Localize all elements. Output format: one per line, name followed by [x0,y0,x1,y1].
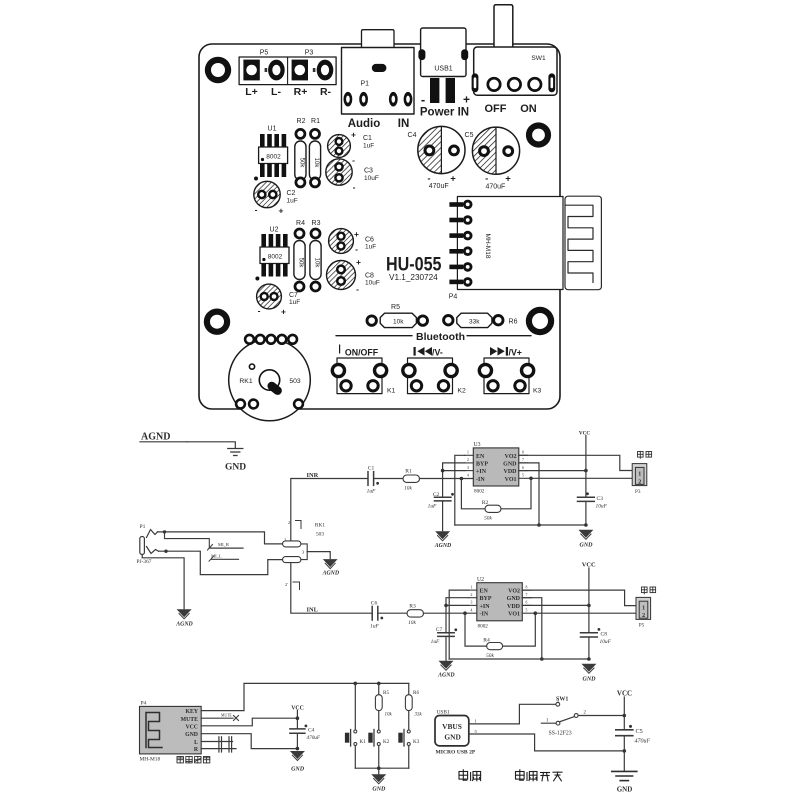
resistor R5 (board) [367,304,427,328]
wire VBUS to SW1 pin3 [469,704,555,724]
svg-text:2: 2 [467,458,469,462]
junction on tip wire [163,530,166,533]
svg-text:C8: C8 [601,632,608,638]
svg-text:10uF: 10uF [365,280,380,287]
ground AGND (RK1) [322,559,340,576]
audio jack P1 barrel [362,30,395,48]
svg-text:K3: K3 [413,739,420,745]
capacitor C1 (schematic) [367,466,379,495]
audio jack P1 body [342,48,415,115]
wire R5 branch [378,683,380,694]
svg-text:P3: P3 [305,50,314,57]
svg-text:1uF: 1uF [431,639,440,645]
svg-text:8002: 8002 [474,489,485,495]
svg-text:1uF: 1uF [363,143,374,150]
header P4 pin 1 [449,200,472,210]
junction GND rail (U2) [540,657,544,661]
label SW1 text moved [0,0,1,1]
svg-text:10k: 10k [385,713,393,718]
USB1 pin - [430,78,439,103]
junction VDD/VCC (U2) [587,604,591,608]
svg-text:MI_R: MI_R [218,542,230,547]
svg-text:503: 503 [289,378,301,385]
svg-text:C4: C4 [408,132,417,139]
svg-text:2: 2 [642,613,645,619]
svg-text:INL: INL [307,607,318,614]
wire C7 to AGND [445,636,447,660]
svg-text:10uF: 10uF [600,639,612,645]
resistor R4 (schematic) [483,638,502,660]
wire RK1 wiper to AGND [307,552,330,559]
svg-text:R3: R3 [312,220,321,227]
svg-text:-: - [355,244,358,254]
svg-text:50k: 50k [484,516,492,522]
svg-text:VO2: VO2 [508,589,520,595]
svg-text:-: - [258,306,261,316]
capacitor C6 (schematic) [370,601,383,630]
capacitor C7 (schematic) [431,627,458,645]
svg-text:/V+: /V+ [509,347,522,357]
wire GND pin to rail (U2) [522,598,542,659]
button K3 [479,347,541,395]
label power switch CJK [516,770,563,781]
svg-text:GND: GND [617,786,633,794]
svg-text:BYP: BYP [476,461,488,467]
capacitor C5 (board) [465,127,520,190]
capacitor C8 (board) [327,257,380,294]
jack pad 1 [344,92,353,107]
power VCC (U3) [579,431,590,471]
header P4 pin 5 [449,262,472,272]
resistor R5 (schematic) [375,690,392,718]
pad R- [317,60,334,81]
label speaker CJK (P5) [642,587,656,594]
wire K1 branch [354,683,356,729]
svg-text:+: + [281,307,286,317]
svg-text:+: + [463,93,470,107]
ground GND (buttons) [371,768,386,792]
svg-text:GND: GND [372,787,386,793]
potentiometer RK1 (schematic) [283,520,326,590]
svg-text:470uF: 470uF [485,184,505,191]
svg-text:C6: C6 [365,237,374,244]
wire R4 to VO1 (U2) [503,613,536,646]
capacitor C2 (board) [254,181,298,215]
svg-text:+IN: +IN [480,604,491,610]
ground AGND (jack) [175,609,193,627]
svg-text:RK1: RK1 [315,523,325,529]
wire +IN join [443,470,465,472]
junction GND rail [537,523,541,527]
svg-text:AGND: AGND [141,432,170,443]
svg-text:10k: 10k [393,318,404,325]
svg-text:10uF: 10uF [596,504,608,510]
junction rail/GND (U2) [587,657,591,661]
junction rail/GND [584,523,588,527]
svg-text:VO2: VO2 [505,454,517,460]
header P4 pin 4 [449,246,472,256]
svg-text:MI_L: MI_L [211,554,222,559]
svg-text:EN: EN [476,454,485,460]
potentiometer RK1 (board) [229,335,311,421]
header P4 pin 6 [449,277,472,287]
capacitor C3 (board) [326,159,379,192]
svg-text:1uF: 1uF [287,198,298,205]
svg-text:-: - [353,182,356,192]
svg-text:K2: K2 [458,388,467,395]
svg-text:+: + [505,174,511,185]
SW1 slot left [472,73,479,92]
ground GND (top left) [228,449,243,456]
wire K1 to rail [354,746,356,769]
svg-text:R1: R1 [311,118,320,125]
svg-text:C3: C3 [597,496,604,502]
svg-text:470uF: 470uF [307,734,321,741]
wire VCC pin to VCC node [201,718,297,726]
svg-text:IN: IN [398,118,410,130]
svg-text:AGND: AGND [175,622,193,628]
svg-text:8002: 8002 [268,254,283,261]
svg-text:1: 1 [467,451,469,455]
SW1 hole 1 [488,78,500,90]
power VCC (U2) [582,562,596,606]
svg-text:C1: C1 [368,466,375,472]
svg-text:GND: GND [507,596,521,602]
pad R+ [292,60,308,81]
svg-text:ON: ON [520,103,537,115]
svg-text:50k: 50k [298,258,304,269]
svg-text:MICRO USB 2P: MICRO USB 2P [436,750,476,756]
wire jack sleeve to AGND [142,555,184,609]
wire VCC to C8 [588,605,590,632]
wire R6 to K3 [408,711,410,730]
connector USB1 (schematic) [435,710,476,756]
ground GND (U3) [578,530,593,549]
wire -IN to R2 feedback [461,479,485,509]
SW1 hole 2 [508,78,520,90]
mounting hole bottom-left [204,309,230,335]
svg-text:4: 4 [471,608,473,612]
svg-text:K3: K3 [533,388,542,395]
connector P5 speaker [636,597,651,628]
svg-text:10k: 10k [404,486,412,492]
ground AGND (C7) [437,661,455,679]
wire INR riser [291,479,368,541]
mounting hole top-left [205,57,231,83]
button K3 (schematic) [398,730,419,747]
svg-text:KEY: KEY [185,709,198,715]
svg-text:50k: 50k [486,653,494,659]
IC U2 [255,227,289,281]
svg-text:50k: 50k [299,158,305,169]
svg-text:-: - [356,284,359,294]
switch contact MIC L [209,554,239,562]
svg-text:VCC: VCC [617,690,632,698]
connector P3 speaker [632,464,647,495]
ground rail (U3) [455,524,586,526]
jack pad 4 [404,92,413,107]
wire jack ring to RK1 [159,551,283,574]
capacitor C4 (board) [408,126,465,190]
wire VDD to VCC [519,470,586,472]
svg-text:C1: C1 [363,135,372,142]
svg-text:R-: R- [320,86,332,98]
svg-text:1uF: 1uF [289,299,300,306]
wire C1 to R1 [374,478,403,480]
switch SW1 body [474,47,557,95]
svg-text:USB1: USB1 [434,66,452,73]
svg-text:+: + [351,130,356,140]
svg-text:GND: GND [580,543,594,549]
button K2 [403,347,466,395]
svg-text:-: - [255,205,258,215]
resistor R3 (board) [310,220,321,291]
wire VO1 to speaker [531,477,632,479]
svg-text:2: 2 [471,593,473,597]
svg-text:7: 7 [522,458,524,462]
svg-text:R5: R5 [383,690,389,696]
svg-text:R1: R1 [405,469,412,475]
resistor R4 (board) [294,220,305,291]
wire BYP to C2 [443,463,465,496]
coupling tick marks L/R [219,737,232,752]
pad L- [268,60,285,81]
op-amp U3 8002 [465,442,531,495]
svg-text:PJ-367: PJ-367 [137,559,152,565]
svg-text:L+: L+ [245,86,258,98]
wire R5 to K2 [378,711,380,730]
module MH-M18 (board) [457,197,563,290]
junction VCC node [296,716,300,720]
svg-text:4: 4 [467,474,469,478]
junction SW1/VCC [623,714,627,718]
wire R1 to -IN [420,478,474,480]
junction K1 branch [354,682,358,686]
svg-text:C4: C4 [308,728,315,734]
svg-text:SW1: SW1 [556,697,568,703]
svg-text:U1: U1 [268,126,277,133]
power VCC (module) [291,706,304,729]
svg-text:470uF: 470uF [635,738,651,745]
resistor R1 (schematic) [403,469,420,492]
svg-text:BYP: BYP [480,596,492,602]
svg-text:P4: P4 [449,294,458,301]
label speaker CJK (P3) [638,452,652,459]
junction VO1 node (U2) [534,611,538,615]
resistor R2 (board) [295,118,306,187]
svg-text:1uF: 1uF [370,624,379,630]
label Audio IN [348,118,410,130]
svg-text:8: 8 [526,585,528,589]
svg-text:8002: 8002 [266,154,281,161]
svg-text:R4: R4 [296,220,305,227]
svg-text:VO1: VO1 [508,612,520,618]
wire BYP to C7 [446,598,468,632]
svg-text:GND: GND [225,463,246,473]
capacitor C1 (board) [328,130,375,166]
wire L pin [201,741,232,743]
svg-text:R2: R2 [297,118,306,125]
wire VDD to VCC (U2) [522,604,589,606]
capacitor C6 (board) [329,229,377,254]
svg-text:Bluetooth: Bluetooth [416,331,465,343]
no-connect X on MUTE [234,716,239,721]
svg-text:Audio: Audio [348,118,381,130]
svg-text:VDD: VDD [504,469,518,475]
svg-text:-IN: -IN [480,612,489,618]
ground GND (U2) [581,664,596,683]
svg-text:INR: INR [307,472,319,479]
ground rail (buttons) [355,767,408,769]
USB1 pin + [446,78,455,103]
svg-text:C5: C5 [465,132,474,139]
wire R2 to VO1 [501,478,531,509]
wire jack tip to RK1 [158,532,283,544]
junction C5/GND rail [623,749,627,753]
svg-text:5: 5 [522,474,524,478]
wire K3 to rail [408,746,410,769]
svg-text:L-: L- [271,86,281,98]
svg-text:C2: C2 [287,190,296,197]
svg-text:6: 6 [526,601,528,605]
svg-text:503: 503 [316,532,324,538]
wire +IN join (U2) [446,604,468,606]
svg-text:L: L [194,740,198,746]
wire GND pin to rail [519,463,539,525]
junction rail/GND (buttons) [377,766,381,770]
wire VO2 to speaker (U2) [522,590,636,606]
power VCC (SW1) [617,690,632,730]
ground AGND (C2) [434,531,452,549]
svg-text:GND: GND [583,677,597,683]
svg-text:GND: GND [185,732,198,738]
svg-text:2: 2 [288,520,290,525]
wire C4 to GND node [296,733,298,748]
svg-text:U2: U2 [477,577,484,583]
svg-text:R6: R6 [509,319,518,326]
svg-text:K1: K1 [387,388,396,395]
svg-text:GND: GND [444,733,460,742]
svg-text:33k: 33k [415,713,423,718]
svg-text:2: 2 [638,479,641,485]
junction -IN node [460,477,464,481]
wire MUTE stub [201,717,233,719]
svg-text:2': 2' [285,582,288,587]
svg-text:1uF: 1uF [365,244,376,251]
svg-text:VDD: VDD [507,604,521,610]
connector P1 audio jack (schematic) [137,524,159,565]
svg-text:R6: R6 [413,690,419,696]
wire KEY to top rail [201,683,409,710]
wire SW1 to VCC node [578,715,624,717]
svg-text:ON/OFF: ON/OFF [345,348,379,358]
junction VO1 node [529,477,533,481]
wire VO2 to speaker [519,455,632,470]
svg-text:SS-12F23: SS-12F23 [549,731,572,737]
mounting hole bottom-right [526,307,554,335]
svg-text:6: 6 [522,466,524,470]
junction +IN/BYP [441,469,445,473]
svg-text:10k: 10k [314,258,320,269]
SW1 slot right [548,73,555,92]
svg-text:VCC: VCC [579,431,590,437]
junction VDD/VCC [584,469,588,473]
wire down to earth [623,751,625,771]
label power CJK (USB) [459,770,481,781]
pad L+ [243,60,259,81]
junction +IN/BYP (U2) [444,604,448,608]
capacitor C5 (schematic) [616,725,651,745]
wire C5 to GND rail [623,736,625,751]
svg-text:AGND: AGND [434,543,452,549]
module MH-M18 P4 (schematic) [140,701,202,763]
junction GND node (module) [296,747,300,751]
wire AGND to GND [187,442,235,448]
SW1 hole 3 [529,78,541,90]
svg-text:MH-M18: MH-M18 [484,234,491,259]
label Bluetooth module CJK [177,757,210,763]
svg-text:3: 3 [471,601,473,605]
svg-text:AGND: AGND [322,571,340,577]
op-amp U2 8002 [468,577,535,630]
wire R3 to -IN (U2) [424,612,477,614]
svg-text:R+: R+ [294,86,308,98]
svg-text:P1: P1 [361,81,370,88]
svg-text:MUTE: MUTE [221,714,232,718]
svg-text:1uF: 1uF [367,489,376,495]
svg-text:C5: C5 [636,728,643,735]
svg-text:+IN: +IN [476,469,487,475]
svg-text:10k: 10k [313,158,319,169]
svg-text:R3: R3 [409,604,416,610]
svg-text:VCC: VCC [185,724,198,730]
switch contact MIC R [165,532,244,550]
svg-text:U3: U3 [474,442,481,448]
svg-text:Power IN: Power IN [420,107,469,119]
svg-text:/V-: /V- [432,347,443,357]
switch SW1 (schematic) [541,697,586,737]
svg-text:K2: K2 [383,739,390,745]
svg-text:GND: GND [503,461,517,467]
svg-text:MUTE: MUTE [181,717,199,723]
wire R6 branch [408,683,410,694]
button K2 (schematic) [368,730,389,747]
wire EN to ground rail (U2) [449,590,468,659]
svg-text:VO1: VO1 [505,477,517,483]
svg-text:1: 1 [638,472,641,478]
connector USB1 body [418,28,468,77]
connector P5/P3 terminal block [239,50,336,85]
svg-text:C7: C7 [289,292,298,299]
svg-text:C3: C3 [364,168,373,175]
capacitor C8 (schematic) [581,628,612,645]
resistor R6 (board) [444,313,518,327]
svg-text:MH-M18: MH-M18 [140,757,161,763]
svg-text:1: 1 [471,585,473,589]
polarity tick marks [265,68,316,72]
ground GND (module) [290,751,305,773]
svg-text:33k: 33k [469,318,480,325]
svg-text:AGND: AGND [437,673,455,679]
svg-text:C6: C6 [371,601,378,607]
ground rail (U2) [449,658,589,660]
svg-text:P1: P1 [140,524,146,530]
capacitor C2 (schematic) [428,492,454,510]
svg-text:R5: R5 [391,304,400,311]
svg-text:P3: P3 [635,489,641,495]
button K1 (schematic) [345,730,366,747]
wire -IN to R4 feedback [465,613,487,646]
